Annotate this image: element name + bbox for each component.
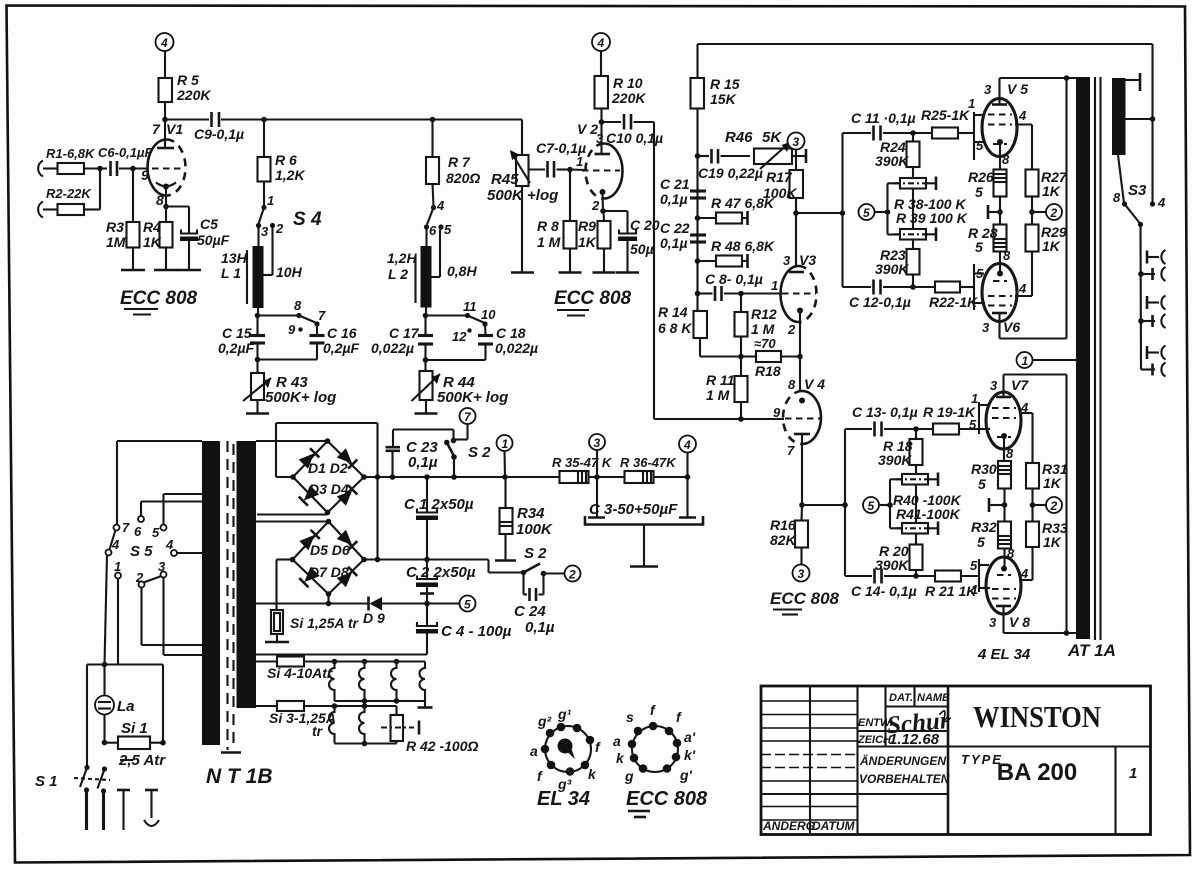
svg-text:7: 7 (122, 520, 130, 535)
wire V4 anode down (801, 434, 803, 505)
wire C17/C18 bottom join (423, 344, 486, 363)
svg-text:C 12-0,1µ: C 12-0,1µ (849, 294, 911, 310)
svg-text:R 48 6,8K: R 48 6,8K (711, 238, 775, 254)
wire anode node to C11/C12 column (796, 212, 843, 214)
triode V4 envelope (783, 391, 821, 444)
title texts middle (857, 692, 950, 786)
label ECC808 pinout (626, 788, 708, 817)
svg-text:R32: R32 (971, 519, 997, 535)
resistor R3 1M (106, 219, 140, 250)
resistor R22 1K (929, 282, 978, 311)
V8 screen wire to R33 (1019, 547, 1033, 581)
S5 contact 2 (135, 570, 202, 645)
capacitor C2 2x50u (406, 560, 476, 604)
diode D1 (299, 448, 320, 469)
pentode V8 envelope (986, 557, 1021, 614)
labels V6 (982, 319, 1020, 335)
svg-text:S 4: S 4 (293, 209, 322, 230)
svg-text:220K: 220K (176, 87, 211, 103)
ground R45 (511, 271, 534, 274)
svg-text:5: 5 (970, 558, 978, 573)
title middle section lines (858, 686, 1151, 747)
fuse Si3 1,25A tr (256, 701, 397, 739)
svg-text:C 20: C 20 (630, 217, 660, 233)
V3 cathode (797, 308, 803, 391)
resistor R10 220K (595, 75, 647, 109)
svg-text:4: 4 (1157, 195, 1166, 210)
title texts left (762, 818, 855, 833)
svg-text:220K: 220K (611, 90, 646, 106)
svg-text:1: 1 (1022, 354, 1029, 368)
label ECC808 V1 (120, 288, 198, 315)
svg-text:R46: R46 (725, 129, 753, 146)
signature Schur (886, 707, 952, 739)
svg-text:S 2: S 2 (524, 545, 547, 562)
svg-text:3: 3 (984, 82, 992, 97)
V5 anode rail to transformer (1000, 75, 1077, 81)
svg-text:V 5: V 5 (1007, 81, 1028, 97)
terminal 5 (upper) (859, 204, 875, 220)
svg-text:R45: R45 (491, 171, 519, 188)
svg-text:V1: V1 (166, 121, 183, 137)
wire C6 to grid node (119, 167, 148, 169)
svg-text:C 17: C 17 (389, 325, 420, 341)
svg-text:R 28: R 28 (968, 225, 998, 241)
svg-text:10H: 10H (276, 264, 303, 280)
svg-text:4: 4 (683, 438, 691, 452)
svg-text:R 36-47K: R 36-47K (620, 455, 677, 470)
trimmer R42 100ohm (381, 706, 478, 754)
node V2 grid (567, 167, 573, 173)
wire to switch 8 (258, 314, 300, 316)
svg-text:R1-6,8K: R1-6,8K (46, 146, 96, 161)
wire R45 to ground (521, 186, 523, 273)
svg-text:390K: 390K (875, 557, 909, 573)
resistor R8 1M (537, 218, 577, 250)
node V4 grid line (738, 416, 744, 422)
resistor R17 100K (763, 150, 803, 202)
svg-text:5: 5 (863, 206, 870, 220)
switch S2 upper (444, 430, 491, 480)
V8 anode bar (996, 606, 1011, 633)
wire grid node into V2 (570, 168, 586, 171)
svg-text:1K: 1K (1042, 238, 1061, 254)
svg-text:9: 9 (773, 405, 781, 420)
svg-text:a: a (530, 743, 538, 759)
potentiometer R44 500K+log (412, 360, 509, 406)
resistor R24 390K (875, 133, 920, 169)
wire R11 bottom to grid line (740, 402, 742, 419)
svg-text:0,8H: 0,8H (447, 263, 477, 279)
svg-text:BA 200: BA 200 (997, 759, 1077, 786)
svg-text:Si 1: Si 1 (121, 720, 148, 737)
svg-text:50µF: 50µF (197, 232, 230, 248)
resistor R15 15K (691, 76, 740, 109)
resistor R14 68K (658, 304, 707, 338)
svg-text:13H: 13H (221, 250, 248, 266)
node V3 anode feed (793, 210, 799, 216)
V2 cathode (600, 189, 606, 211)
svg-text:R17: R17 (766, 169, 793, 185)
capacitor C5 50uF (180, 216, 230, 248)
svg-text:1: 1 (576, 154, 583, 169)
svg-text:8: 8 (1006, 446, 1014, 461)
ground C20 (616, 271, 639, 274)
title block outer box (761, 686, 1151, 835)
svg-text:1: 1 (771, 278, 778, 293)
vertical through lower trimmers (915, 485, 917, 525)
svg-text:2: 2 (1050, 206, 1058, 220)
resistor R5 220K (159, 72, 212, 103)
terminal 3 (below R16) (793, 548, 810, 582)
resistor R2 22K (46, 186, 92, 215)
wire R17 to V3 anode (795, 198, 797, 267)
svg-text:V7: V7 (1011, 377, 1029, 393)
S5 contact 3 (158, 559, 202, 655)
wire grid node down to R3 (132, 169, 134, 223)
wire R15 column down (696, 109, 698, 312)
junction R7 rail (430, 117, 436, 123)
switch S5 contact 4 (106, 537, 121, 556)
svg-text:a': a' (684, 729, 696, 745)
R27/R29 mid node + terminal 2 (1029, 197, 1062, 225)
node grid V1 (130, 166, 136, 172)
wire R32 to V8 cathode (1005, 546, 1016, 569)
svg-text:1,2H: 1,2H (387, 250, 417, 266)
capacitor C3 50+50uF (585, 477, 703, 567)
svg-text:1 M: 1 M (751, 321, 775, 337)
V1 cathode (156, 183, 176, 207)
svg-text:3: 3 (793, 135, 800, 149)
wire cathode to R4 (165, 207, 167, 223)
svg-text:DAT.: DAT. (889, 692, 913, 704)
S5 contact 4 tap right (165, 537, 202, 556)
svg-text:6 8 K: 6 8 K (658, 320, 692, 336)
svg-text:0,1µ: 0,1µ (525, 619, 555, 636)
svg-text:C 14- 0,1µ: C 14- 0,1µ (851, 583, 917, 599)
V6 grid bracket (974, 264, 985, 310)
svg-text:C 11 ·0,1µ: C 11 ·0,1µ (851, 110, 916, 126)
V3 anode bar (789, 271, 804, 274)
mains rail (87, 662, 163, 767)
resistor R29 1K (1026, 224, 1067, 254)
node cathode V1 (163, 204, 169, 210)
svg-text:1K: 1K (143, 234, 162, 250)
terminal 4 (supply) (679, 436, 696, 480)
svg-text:D7 D8: D7 D8 (309, 564, 349, 580)
S3 contact 4 column (1150, 119, 1166, 210)
svg-text:WINSTON: WINSTON (973, 699, 1101, 734)
wire term4 to R10 (600, 51, 602, 76)
svg-text:8: 8 (1113, 190, 1121, 205)
input jack 1 (38, 161, 57, 177)
svg-text:V6: V6 (1003, 319, 1020, 335)
capacitor C12 0,1u (843, 280, 936, 311)
V1 anode bar (157, 147, 174, 150)
svg-text:10: 10 (481, 307, 496, 322)
wire R44 to ground (425, 400, 427, 414)
diode D2 (337, 448, 358, 469)
svg-text:Si 3-1,25A: Si 3-1,25A (269, 710, 336, 726)
wire grid node down to R8 (569, 170, 571, 222)
svg-text:1: 1 (971, 582, 978, 597)
wire R43 to ground (256, 400, 258, 414)
svg-text:L 1: L 1 (221, 265, 241, 281)
L2 tap 0,8H (432, 230, 478, 280)
wire C5 to ground (188, 241, 190, 270)
title block verticals (810, 686, 1116, 835)
svg-text:D3 D4: D3 D4 (309, 481, 349, 497)
speaker jack 3b (1141, 363, 1166, 377)
svg-text:R 7: R 7 (448, 154, 471, 170)
R46 end stub (792, 149, 806, 163)
capacitor C11 0,1u (843, 110, 933, 141)
svg-text:g¹: g¹ (557, 706, 572, 722)
node L1 bottom (255, 308, 261, 318)
potentiometer R43 500K+log (243, 360, 336, 407)
svg-text:R 21 1K: R 21 1K (925, 583, 977, 599)
S5 contact 5 tap (152, 494, 202, 540)
svg-text:1: 1 (968, 96, 975, 111)
triode V1 envelope (148, 140, 186, 196)
wire R18b to R40 (915, 465, 917, 474)
labels V5 (984, 81, 1028, 167)
svg-text:≈70: ≈70 (754, 336, 776, 351)
ground R44 (415, 412, 438, 415)
svg-text:C 24: C 24 (514, 603, 546, 620)
heater loops row 1 (329, 659, 425, 701)
svg-text:4 EL 34: 4 EL 34 (977, 646, 1031, 663)
D9 rail (256, 601, 460, 607)
pentode V6 envelope (982, 264, 1017, 322)
node R47 (695, 215, 701, 221)
svg-text:3: 3 (594, 436, 601, 450)
svg-text:390K: 390K (878, 452, 912, 468)
svg-text:C 3-50+50µF: C 3-50+50µF (589, 501, 678, 518)
L1 tap 10H (264, 228, 303, 280)
wire R20 bottom (915, 570, 917, 576)
svg-text:0,2µF: 0,2µF (323, 340, 360, 356)
capacitor C23 0,1u (386, 430, 454, 480)
svg-text:3: 3 (596, 131, 604, 146)
switch S4 contacts 11/10/12 (452, 299, 496, 344)
svg-text:390K: 390K (875, 261, 909, 277)
svg-text:2: 2 (275, 221, 284, 236)
trimmer R38 100K (894, 177, 936, 191)
svg-text:Si 4-10Atr: Si 4-10Atr (267, 665, 334, 681)
wire R8 to ground (569, 249, 571, 273)
svg-text:4: 4 (436, 198, 445, 213)
svg-text:C 18: C 18 (496, 325, 526, 341)
resistor R4 1K (143, 219, 173, 250)
svg-text:N T 1B: N T 1B (206, 765, 273, 788)
wire term5 to trimmer mid lower (879, 479, 902, 528)
triode V2 envelope (586, 144, 623, 199)
svg-text:2: 2 (135, 570, 144, 585)
V3 grid (dashed) (782, 292, 816, 294)
EL34 pinout circle (545, 726, 591, 772)
capacitor C21 0,1u (660, 176, 706, 207)
node V1 anode (162, 117, 168, 123)
svg-text:R30: R30 (971, 461, 997, 477)
terminal 4 (top-left) (156, 33, 174, 51)
svg-text:C 13- 0,1µ: C 13- 0,1µ (852, 404, 918, 420)
resistor R47 6,8K (698, 195, 775, 225)
svg-text:R4: R4 (143, 219, 161, 235)
triode V3 envelope (781, 266, 817, 322)
node C8 (695, 291, 701, 297)
fuse Si4 10Atr (256, 657, 425, 682)
vertical through trimmers (912, 189, 914, 230)
svg-text:4: 4 (160, 36, 168, 50)
switch S4 right pole 4/6/5 (424, 198, 452, 238)
svg-text:0,022µ: 0,022µ (371, 340, 414, 356)
wire C13/C14 feed column (844, 429, 846, 576)
svg-text:3: 3 (798, 567, 805, 581)
svg-text:R 39 100 K: R 39 100 K (896, 210, 968, 226)
svg-text:1: 1 (971, 391, 978, 406)
resistor R7 820ohm (426, 154, 480, 186)
svg-text:8: 8 (294, 298, 302, 313)
svg-text:R34: R34 (517, 505, 545, 522)
resistor R25 1K (921, 107, 974, 139)
resistor R35 47K (552, 455, 613, 483)
svg-text:C 8- 0,1µ: C 8- 0,1µ (705, 271, 763, 287)
svg-text:C 16: C 16 (327, 325, 357, 341)
diode D6 (337, 530, 358, 551)
V8 anode rail to transformer (1004, 630, 1077, 636)
V8 internals (992, 575, 1016, 599)
svg-text:D5 D6: D5 D6 (310, 542, 350, 558)
node L2 bottom (423, 308, 429, 319)
potentiometer R45 500K+log (487, 150, 558, 204)
secondary mid tap (1126, 116, 1156, 122)
svg-text:g²: g² (537, 713, 552, 729)
svg-text:1: 1 (1129, 765, 1137, 782)
svg-text:EL 34: EL 34 (537, 788, 590, 810)
diode D8 (337, 567, 358, 588)
svg-text:R 8: R 8 (537, 218, 559, 234)
svg-text:50µ: 50µ (630, 241, 654, 257)
V7 anode bar (996, 375, 1011, 398)
svg-text:7: 7 (318, 308, 326, 323)
wire R1 to node (84, 167, 107, 169)
ground R43 (246, 412, 269, 415)
mid rail (364, 557, 524, 573)
svg-text:La: La (117, 698, 135, 715)
speaker bus (1138, 225, 1144, 370)
capacitor C9 0,1u (194, 112, 244, 142)
svg-text:S 2: S 2 (468, 444, 491, 461)
wire rail corner to R45 (521, 120, 523, 156)
svg-text:tr: tr (312, 723, 324, 739)
svg-text:100K: 100K (763, 185, 797, 201)
svg-text:4: 4 (1018, 108, 1027, 123)
capacitor C17 0,022u (371, 316, 433, 357)
S1 mains pins (84, 787, 106, 830)
svg-text:5: 5 (868, 499, 875, 513)
switch S2 lower (521, 545, 565, 576)
ground C5 (177, 269, 201, 272)
svg-text:S3: S3 (1128, 182, 1147, 199)
svg-text:R 15: R 15 (710, 76, 740, 92)
labels D5-D8 (309, 542, 350, 580)
trimmer R40 100K (896, 473, 938, 487)
svg-text:8: 8 (156, 192, 164, 208)
svg-text:12: 12 (452, 329, 467, 344)
svg-text:C 21: C 21 (660, 176, 690, 192)
wire C10 long feed to V4 grid (654, 122, 784, 419)
ground R4 (154, 269, 178, 272)
V8 grid bracket (970, 558, 990, 597)
svg-text:3: 3 (982, 320, 990, 335)
svg-text:g': g' (679, 767, 693, 783)
svg-text:R26: R26 (968, 169, 994, 185)
svg-text:C 4 - 100µ: C 4 - 100µ (441, 623, 512, 640)
svg-text:0,1µ: 0,1µ (660, 191, 688, 207)
svg-text:5: 5 (444, 222, 452, 237)
svg-text:5: 5 (978, 476, 986, 492)
terminal 7 (454, 408, 476, 440)
resistor R16 82K (770, 505, 808, 548)
svg-text:S 1: S 1 (35, 773, 58, 790)
svg-text:500K+ log: 500K+ log (265, 389, 336, 406)
bridge D5-D8 diamond (290, 519, 367, 597)
svg-text:8: 8 (1003, 248, 1011, 263)
node V2 cathode (600, 208, 606, 214)
title block left rows (761, 701, 858, 820)
node C14 run (913, 573, 919, 579)
node R18b top (913, 426, 919, 432)
capacitor C24 0,1u (514, 573, 555, 637)
svg-text:R 11: R 11 (706, 372, 735, 388)
svg-text:3: 3 (158, 559, 166, 574)
capacitor C6 0,1uF (98, 145, 154, 176)
terminal 5 (lower) (863, 497, 879, 513)
labels V7 (990, 377, 1029, 461)
node R24 top (910, 130, 916, 136)
svg-text:11: 11 (463, 299, 477, 314)
wire R5 to anode node (164, 102, 166, 120)
svg-text:ÄNDERG.: ÄNDERG. (762, 818, 818, 833)
cathode mid node + stub (988, 197, 1003, 225)
wire R6 to S4 (263, 182, 265, 207)
svg-text:DATUM: DATUM (812, 819, 855, 833)
bridge D5-D8 frame (256, 522, 329, 611)
svg-text:1K: 1K (1043, 475, 1062, 491)
svg-text:500K+ log: 500K+ log (437, 389, 508, 406)
svg-text:R3: R3 (106, 219, 124, 235)
svg-text:k: k (588, 766, 597, 782)
resistor R12 1M (735, 294, 777, 338)
svg-text:C6-0,1µF: C6-0,1µF (98, 145, 154, 160)
node feed (840, 210, 846, 216)
svg-text:8: 8 (788, 377, 796, 392)
V2 grid (dashed) (582, 169, 620, 171)
svg-text:3: 3 (990, 378, 998, 393)
wire R9 to ground (603, 249, 605, 273)
svg-text:g: g (624, 768, 634, 784)
speaker jack 2a (1147, 296, 1166, 310)
svg-text:R 35-47 K: R 35-47 K (552, 455, 613, 470)
svg-text:8: 8 (1002, 152, 1010, 167)
switch S4 contacts 8/7/9 (288, 298, 326, 337)
resistor R20 390K (875, 534, 923, 574)
svg-text:R2-22K: R2-22K (46, 186, 92, 201)
switch S1 (35, 765, 110, 790)
svg-text:4: 4 (165, 537, 174, 552)
ground R8 (559, 271, 582, 274)
